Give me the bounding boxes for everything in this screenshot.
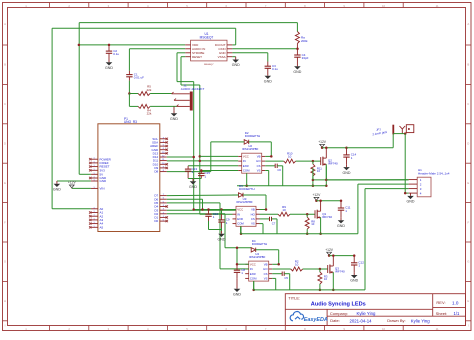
svg-text:Kylie Ying: Kylie Ying — [357, 311, 376, 316]
svg-text:10: 10 — [317, 169, 321, 173]
svg-text:2021-04-14: 2021-04-14 — [350, 318, 373, 323]
svg-text:VS: VS — [257, 169, 261, 173]
svg-text:EXR: EXR — [243, 164, 249, 168]
svg-text:EXR: EXR — [237, 217, 243, 221]
svg-text:IN: IN — [237, 212, 240, 216]
svg-text:VCC: VCC — [250, 262, 256, 266]
svg-text:D: D — [467, 142, 469, 146]
svg-text:VB: VB — [251, 208, 255, 212]
svg-text:DIODEPTH: DIODEPTH — [245, 134, 261, 138]
svg-text:C: C — [467, 102, 469, 106]
svg-text:1: 1 — [93, 169, 94, 171]
svg-text:GND: GND — [105, 66, 113, 70]
svg-text:10: 10 — [162, 163, 164, 165]
svg-text:11: 11 — [162, 159, 164, 161]
svg-text:VB: VB — [257, 155, 261, 159]
svg-text:200k: 200k — [301, 39, 308, 43]
svg-text:33pF: 33pF — [302, 56, 309, 60]
svg-text:4: 4 — [163, 205, 164, 207]
svg-text:Header-Male 2.54_1x4: Header-Male 2.54_1x4 — [418, 171, 450, 175]
svg-text:1: 1 — [93, 165, 94, 167]
svg-text:A: A — [4, 22, 6, 26]
svg-text:10: 10 — [324, 277, 328, 281]
svg-text:1: 1 — [93, 215, 94, 217]
svg-text:A: A — [467, 22, 469, 26]
svg-text:IRF740: IRF740 — [335, 270, 345, 274]
svg-text:VCC: VCC — [243, 155, 249, 159]
svg-text:IRF740: IRF740 — [328, 162, 338, 166]
svg-text:IRS2125PBF: IRS2125PBF — [236, 200, 253, 204]
svg-text:GND: GND — [170, 117, 178, 121]
svg-text:5: 5 — [163, 201, 164, 203]
svg-text:+12V: +12V — [313, 193, 322, 197]
svg-text:10: 10 — [382, 4, 386, 8]
svg-text:0.01 uF: 0.01 uF — [134, 76, 144, 80]
svg-text:1/1: 1/1 — [454, 311, 460, 316]
svg-text:4: 4 — [163, 141, 164, 143]
svg-text:22k: 22k — [147, 112, 152, 116]
svg-text:CS: CS — [251, 217, 255, 221]
svg-text:G: G — [4, 260, 6, 264]
svg-text:GND: GND — [293, 70, 301, 74]
svg-text:VS: VS — [251, 222, 255, 226]
svg-text:MSGEQ7: MSGEQ7 — [204, 64, 214, 66]
svg-text:DIODEPTH: DIODEPTH — [239, 187, 255, 191]
svg-text:Date:: Date: — [330, 318, 340, 323]
svg-text:11: 11 — [436, 327, 439, 331]
svg-text:11: 11 — [436, 4, 439, 8]
svg-text:Company:: Company: — [330, 311, 348, 316]
svg-text:Kylie Ying: Kylie Ying — [411, 318, 430, 323]
svg-text:C5: C5 — [284, 276, 288, 280]
svg-text:COM: COM — [237, 222, 244, 226]
svg-text:E: E — [4, 181, 6, 185]
svg-text:6: 6 — [163, 148, 164, 150]
svg-text:D8: D8 — [154, 170, 158, 174]
svg-text:E: E — [467, 181, 469, 185]
svg-text:22k: 22k — [147, 88, 152, 92]
svg-text:1: 1 — [93, 180, 94, 182]
svg-text:3: 3 — [163, 137, 164, 139]
svg-text:Audio Syncing LEDs: Audio Syncing LEDs — [311, 302, 366, 308]
svg-text:COM: COM — [250, 277, 257, 281]
svg-text:H: H — [467, 299, 469, 303]
svg-text:IN: IN — [250, 267, 253, 271]
svg-text:C6: C6 — [277, 168, 281, 172]
svg-text:7: 7 — [163, 194, 164, 196]
svg-text:GND: GND — [337, 224, 345, 228]
svg-text:EasyEDA: EasyEDA — [304, 317, 328, 323]
svg-text:1: 1 — [93, 222, 94, 224]
svg-text:Drawn By:: Drawn By: — [387, 318, 405, 323]
svg-text:13: 13 — [162, 152, 164, 154]
svg-text:F: F — [4, 220, 6, 224]
svg-text:EXR: EXR — [250, 272, 256, 276]
svg-text:COM: COM — [243, 169, 250, 173]
svg-text:D: D — [4, 142, 6, 146]
svg-text:0.1u: 0.1u — [272, 67, 278, 71]
svg-text:MSGEQ7: MSGEQ7 — [200, 36, 214, 40]
svg-text:9: 9 — [163, 166, 164, 168]
svg-text:AUDIO JACK2KT: AUDIO JACK2KT — [181, 87, 205, 91]
svg-text:C: C — [4, 102, 6, 106]
svg-text:GND: GND — [343, 171, 351, 175]
svg-text:8: 8 — [163, 170, 164, 172]
svg-text:IRS2125PBF: IRS2125PBF — [249, 255, 266, 259]
svg-text:IRS2125PBF: IRS2125PBF — [242, 147, 259, 151]
svg-text:GND: GND — [218, 238, 226, 242]
svg-text:GND: GND — [100, 179, 108, 183]
svg-text:GND: GND — [407, 200, 415, 204]
svg-text:Sheet:: Sheet: — [436, 311, 448, 316]
svg-text:6: 6 — [163, 198, 164, 200]
svg-text:A5: A5 — [100, 225, 104, 229]
svg-text:1: 1 — [93, 211, 94, 213]
svg-text:10: 10 — [282, 208, 286, 212]
svg-text:+12V: +12V — [68, 181, 77, 185]
svg-text:CS: CS — [264, 272, 268, 276]
svg-text:1: 1 — [93, 187, 94, 189]
svg-text:1: 1 — [93, 207, 94, 209]
svg-text:GND: GND — [264, 80, 272, 84]
svg-text:5: 5 — [163, 145, 164, 147]
svg-text:1: 1 — [93, 161, 94, 163]
svg-text:DIODEPTH: DIODEPTH — [252, 242, 268, 246]
svg-text:1: 1 — [93, 158, 94, 160]
svg-text:REV:: REV: — [436, 300, 445, 305]
svg-text:VIN: VIN — [100, 187, 105, 191]
svg-text:3: 3 — [163, 209, 164, 211]
svg-text:1: 1 — [163, 216, 164, 218]
svg-text:RESET: RESET — [192, 55, 202, 59]
svg-text:G: G — [467, 260, 469, 264]
svg-text:+12V: +12V — [325, 248, 334, 252]
svg-text:CS: CS — [257, 164, 261, 168]
svg-text:GND: GND — [53, 188, 61, 192]
svg-text:VS: VS — [264, 277, 268, 281]
svg-text:1: 1 — [93, 218, 94, 220]
svg-text:VSSA: VSSA — [218, 55, 226, 59]
svg-text:GND: GND — [232, 63, 240, 67]
svg-text:C7: C7 — [272, 221, 276, 225]
svg-text:IRF740: IRF740 — [322, 215, 332, 219]
svg-text:TITLE:: TITLE: — [288, 295, 300, 300]
svg-text:1: 1 — [93, 173, 94, 175]
svg-text:B: B — [4, 63, 6, 67]
svg-text:2: 2 — [163, 212, 164, 214]
svg-text:GND: GND — [233, 293, 241, 297]
svg-text:10: 10 — [382, 327, 386, 331]
svg-text:GND: GND — [189, 185, 197, 189]
svg-text:+12V: +12V — [318, 140, 327, 144]
svg-text:0: 0 — [163, 220, 164, 222]
svg-text:H: H — [4, 299, 6, 303]
svg-text:10: 10 — [288, 155, 292, 159]
svg-text:VB: VB — [264, 262, 268, 266]
svg-text:B: B — [467, 63, 469, 67]
svg-text:VCC: VCC — [237, 208, 243, 212]
svg-text:10: 10 — [311, 222, 315, 226]
svg-text:F: F — [467, 220, 469, 224]
svg-text:0.1u: 0.1u — [113, 52, 119, 56]
svg-text:1: 1 — [93, 177, 94, 179]
svg-text:10: 10 — [295, 263, 299, 267]
svg-text:1: 1 — [93, 226, 94, 228]
svg-text:GND: GND — [350, 279, 358, 283]
svg-text:1.0: 1.0 — [452, 301, 459, 306]
svg-text:12: 12 — [162, 156, 164, 158]
svg-text:IN: IN — [243, 159, 246, 163]
svg-text:D0: D0 — [154, 219, 158, 223]
